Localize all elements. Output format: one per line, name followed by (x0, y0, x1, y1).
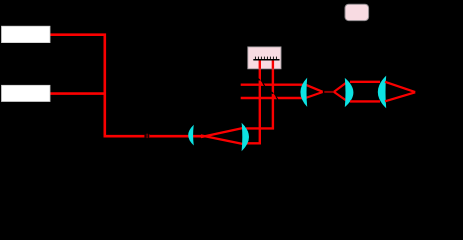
wire: expanded beam bottom between B and C (350, 100, 380, 102)
lens C (convex left) (378, 76, 386, 109)
laser box 1 (2, 26, 51, 42)
nick on beam A after crossing (263, 83, 265, 86)
jog: retro beam pick-off on left grating beam (258, 79, 262, 84)
wire: expanded beam top between B and C (350, 81, 380, 83)
lens A (convex left) (300, 78, 307, 107)
nick on beam B after crossing (276, 97, 278, 100)
lens B (convex right) (345, 78, 354, 107)
modulator marks on bottom beam (144, 134, 149, 139)
lens L1 small (convex left) (188, 125, 194, 146)
control box (rounded, top right) (345, 4, 369, 20)
ray: final focus (bottom) (385, 92, 415, 101)
wire: beam from laser 1 to junction and down to bottom rail (50, 35, 201, 137)
ray: diverging from waist (bottom) (334, 92, 348, 102)
ray: converging into waist (bottom) (306, 92, 323, 98)
wire: horizontal beam A to telescope (241, 83, 304, 85)
laser box 2 (2, 85, 51, 101)
wire: horizontal beam B to telescope (241, 97, 304, 99)
ray: final focus (top) (385, 82, 415, 92)
grating comb teeth (255, 57, 276, 60)
wire: beam from laser 2 to junction (50, 92, 105, 95)
grating beam right (vertical inside box) (272, 60, 274, 69)
jog: retro beam pick-off on right grating beam (271, 92, 275, 97)
ray: converging into waist (top) (306, 85, 323, 92)
wire: lens L2 top exit folding up to grating right beam (246, 60, 273, 129)
ray: diverging after focus of lens L1 (top) (201, 128, 243, 137)
grating comb line (253, 59, 279, 61)
grating beam left (vertical inside box) (259, 60, 261, 69)
grating box (248, 47, 281, 69)
wire: lens L2 bottom exit folding up to grating left beam (246, 60, 260, 144)
lens L2 (convex right) (242, 123, 249, 151)
waist dark segment (324, 91, 334, 93)
ray: diverging after focus of lens L1 (bottom) (201, 135, 243, 144)
ray: diverging from waist (top) (334, 82, 348, 92)
